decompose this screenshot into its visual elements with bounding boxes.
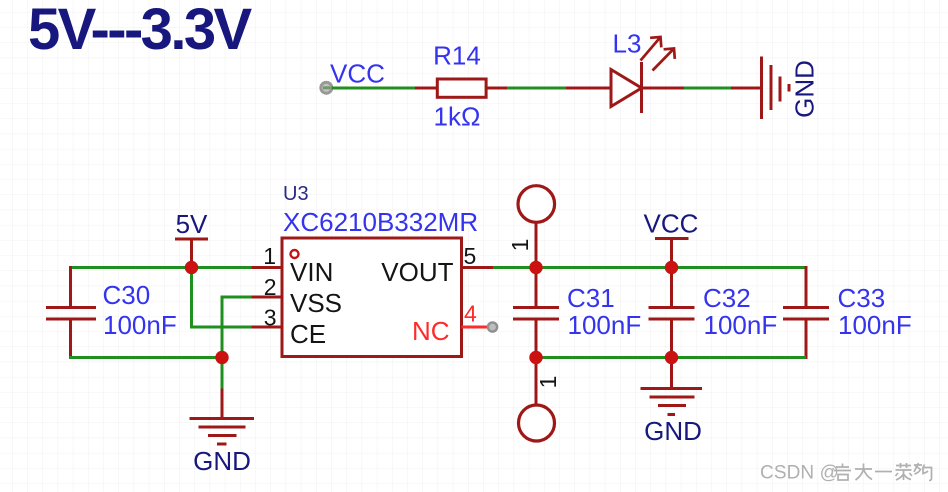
wire C31 to VCC junction [536, 266, 672, 269]
wire C30 bottom to GND junction [69, 356, 222, 359]
svg-text:XC6210B332MR: XC6210B332MR [283, 207, 478, 237]
pin wire L3 anode [566, 87, 611, 90]
svg-text:1: 1 [507, 239, 533, 252]
svg-text:L3: L3 [613, 29, 642, 59]
svg-text:GND: GND [644, 416, 702, 446]
junction at 5V node [185, 261, 198, 274]
svg-text:VCC: VCC [644, 209, 699, 239]
capacitor C31 [513, 268, 559, 358]
glyph yi [875, 471, 892, 473]
svg-text:100nF: 100nF [568, 310, 642, 340]
ground GND right [641, 389, 703, 415]
wire C31 bottom to C33 bottom [536, 356, 806, 359]
LED L3 [611, 37, 675, 113]
pin wire R14 pin1 [415, 87, 437, 90]
test point circle top [518, 186, 555, 223]
capacitor C33 [783, 266, 829, 359]
capacitor C30 [46, 266, 96, 359]
ground GND left [190, 389, 255, 445]
watermark CSDN [760, 463, 932, 484]
svg-text:C30: C30 [103, 280, 151, 310]
capacitor C32 [649, 268, 695, 358]
glyph ji2 [914, 463, 932, 481]
svg-text:5V: 5V [176, 209, 208, 239]
pin wire U3 pin5 [462, 266, 494, 269]
glyph cai [896, 463, 913, 480]
pin 1 marker dot [291, 250, 299, 258]
svg-text:R14: R14 [433, 41, 481, 71]
svg-text:100nF: 100nF [704, 310, 778, 340]
svg-text:1: 1 [263, 243, 276, 269]
pin wire U3 pin4 NC stub [462, 326, 490, 329]
power port VCC [644, 209, 699, 264]
pin wire U3 pin2 [252, 296, 283, 299]
svg-text:VCC: VCC [330, 59, 385, 89]
wire VSS to bottom [222, 297, 252, 358]
pin wire U3 pin3 [252, 326, 283, 329]
test point circle bottom [519, 405, 555, 441]
node VCC terminal dot [321, 82, 332, 93]
junction at C32 bottom [665, 351, 678, 364]
wire VCC to R14 [332, 87, 416, 90]
wire pin5 to C31 [493, 266, 536, 269]
no-connect dot pin 4 [488, 322, 497, 331]
svg-text:VIN: VIN [290, 257, 333, 287]
svg-text:CE: CE [290, 319, 326, 349]
junction at C32 top [665, 261, 678, 274]
wire C30 top to junction [69, 266, 192, 269]
ground GND rotated [762, 57, 790, 120]
svg-text:1: 1 [535, 376, 561, 389]
svg-text:U3: U3 [283, 183, 309, 205]
glyph ji [834, 464, 851, 481]
svg-text:NC: NC [412, 316, 450, 346]
svg-text:C33: C33 [838, 283, 886, 313]
power port 5V [175, 209, 208, 263]
svg-text:4: 4 [464, 301, 477, 327]
junction at GND node left [215, 351, 228, 364]
glyph da [855, 464, 872, 481]
svg-text:GND: GND [790, 60, 820, 118]
svg-text:1kΩ: 1kΩ [434, 102, 481, 132]
test point bottom lead [535, 358, 538, 406]
resistor R14 [437, 79, 486, 97]
junction at C31 top [529, 261, 542, 274]
wire L3 to GND [684, 87, 731, 90]
svg-text:C32: C32 [703, 283, 751, 313]
junction at C31 bottom [529, 351, 542, 364]
svg-text:100nF: 100nF [838, 310, 912, 340]
svg-text:5V---3.3V: 5V---3.3V [28, 0, 253, 62]
svg-text:100nF: 100nF [103, 310, 177, 340]
wire junction down to CE [192, 268, 252, 328]
regulator U3 box [282, 238, 462, 357]
pin wire R14 pin2 [486, 87, 507, 90]
svg-text:5: 5 [464, 243, 477, 269]
svg-text:VOUT: VOUT [381, 257, 453, 287]
wire junction to pin1 [192, 266, 252, 269]
wire R14 to L3 [507, 87, 566, 90]
svg-text:GND: GND [193, 446, 251, 476]
pin wire U3 pin1 [252, 266, 283, 269]
pin wire GND power top [731, 87, 762, 90]
wire junction to ground [221, 358, 224, 389]
svg-text:C31: C31 [567, 283, 615, 313]
ground lead right [670, 358, 673, 389]
pin wire L3 cathode [642, 87, 685, 90]
svg-text:CSDN @: CSDN @ [760, 463, 839, 484]
test point top lead [535, 221, 538, 268]
svg-text:VSS: VSS [290, 288, 342, 318]
wire VCC junction to C33 [672, 266, 807, 269]
